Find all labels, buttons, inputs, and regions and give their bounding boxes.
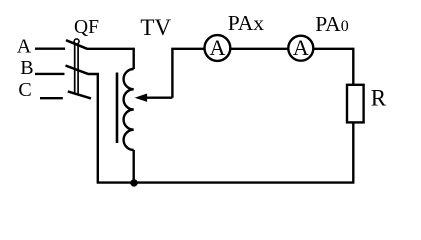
wire phase C input [40,97,63,99]
transformer TV core bar [116,73,119,144]
wire tap horizontal [146,96,172,98]
svg-text:C: C [18,79,31,101]
wire phase B output down to bottom rail [88,74,98,183]
svg-text:PAx: PAx [228,11,265,35]
switch blade QF pole B [66,66,89,74]
transformer TV winding coil [124,69,134,150]
ammeter PA0 circle [288,36,313,61]
ammeter PAx circle [205,35,231,61]
wire winding bottom to rail [132,150,134,183]
wire phase B input [35,73,65,75]
svg-text:QF: QF [74,17,99,38]
switch blade QF pole A [66,40,87,49]
tap arrow head [135,94,148,102]
svg-text:A: A [293,35,309,60]
breaker QF linkage top circle [74,39,79,44]
breaker QF linkage bar left [74,43,76,94]
svg-text:TV: TV [140,15,171,40]
svg-text:R: R [371,85,387,110]
switch blade QF pole C [68,91,91,98]
svg-text:PA0: PA0 [315,12,349,36]
resistor R body [347,85,364,123]
wire phase A output to transformer top [87,49,134,69]
wire tap vertical and top run to PAx [172,49,204,98]
wire phase A input [35,48,65,50]
wire between PAx and PA0 [230,48,288,50]
junction dot [130,179,137,186]
svg-text:A: A [209,35,225,60]
wire PA0 to right corner and down to resistor [314,49,354,85]
svg-text:B: B [20,57,33,79]
svg-text:A: A [17,36,32,58]
wire resistor bottom to rail [352,122,354,182]
breaker QF linkage bar right [77,43,79,94]
wire bottom rail [97,181,355,183]
